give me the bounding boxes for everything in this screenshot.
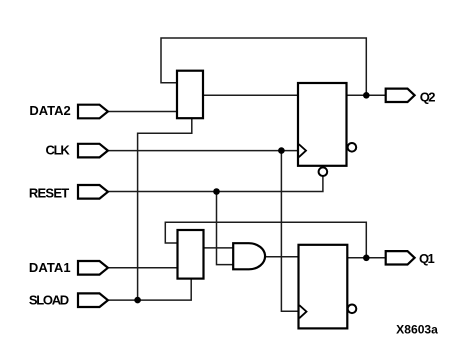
svg-text:X8603a: X8603a (396, 324, 438, 336)
svg-text:CLK: CLK (46, 143, 71, 158)
svg-text:RESET: RESET (29, 185, 69, 200)
svg-text:SLOAD: SLOAD (29, 293, 69, 308)
svg-text:DATA1: DATA1 (29, 260, 71, 275)
svg-text:Q2: Q2 (420, 90, 436, 105)
svg-text:DATA2: DATA2 (29, 103, 70, 118)
svg-text:Q1: Q1 (419, 251, 435, 266)
